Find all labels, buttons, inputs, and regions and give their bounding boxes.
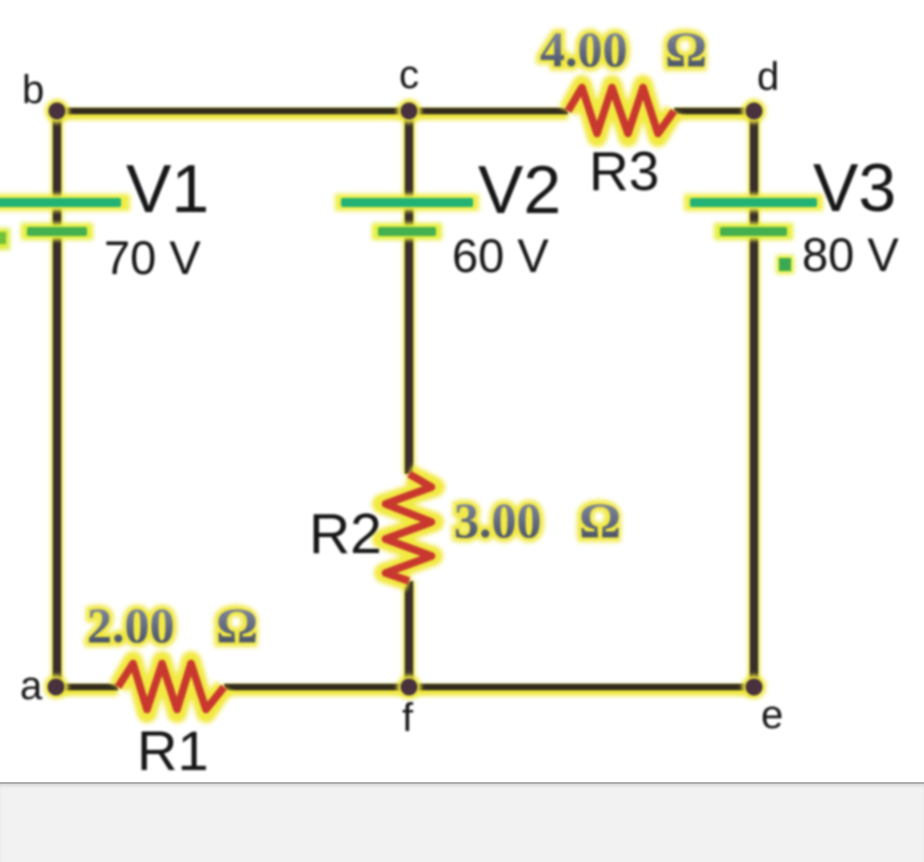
resistor R1 xyxy=(118,661,224,713)
node b (junction dot) xyxy=(45,99,69,123)
svg-text:V3: V3 xyxy=(813,150,896,226)
node d (junction dot) xyxy=(742,99,766,123)
svg-text:80 V: 80 V xyxy=(802,228,899,281)
node a (junction dot) xyxy=(44,675,68,699)
label R2 xyxy=(309,502,382,566)
node label f xyxy=(402,696,414,740)
svg-text:V1: V1 xyxy=(126,151,209,227)
svg-text:2.00: 2.00 xyxy=(87,597,175,653)
resistor R3 xyxy=(568,85,674,137)
svg-text:Ω: Ω xyxy=(579,492,621,548)
svg-text:f: f xyxy=(402,696,414,740)
node c (junction dot) xyxy=(397,99,421,123)
stray yellow mark at left edge below V1 short plate xyxy=(0,228,10,250)
resistor R2 xyxy=(382,474,435,581)
value label 60 V xyxy=(452,229,549,282)
svg-text:d: d xyxy=(757,55,779,99)
node e (junction dot) xyxy=(742,675,766,699)
wire c-R2 (middle vertical upper) xyxy=(403,111,415,474)
svg-text:R2: R2 xyxy=(309,502,382,566)
label V1 xyxy=(126,151,209,227)
battery V3 xyxy=(684,194,823,240)
value label 70 V xyxy=(104,231,201,284)
wire R2-f (middle vertical lower) xyxy=(403,581,415,687)
svg-text:3.00: 3.00 xyxy=(454,492,542,548)
svg-text:V2: V2 xyxy=(478,152,561,228)
node f (junction dot) xyxy=(397,675,421,699)
label R1 xyxy=(137,719,209,782)
svg-text:a: a xyxy=(20,664,43,708)
svg-text:b: b xyxy=(22,68,44,112)
value label 4.00 Ω xyxy=(540,21,707,77)
svg-text:e: e xyxy=(761,693,783,737)
node label a xyxy=(20,664,43,708)
label V2 xyxy=(478,152,561,228)
node label e xyxy=(761,693,783,737)
battery V2 xyxy=(335,194,479,240)
wire b-c (top left horizontal) xyxy=(57,111,568,115)
footer gray strip xyxy=(0,782,924,862)
stray green mark near 80 V xyxy=(776,255,794,274)
wire a-R1 (bottom left horizontal) xyxy=(57,687,118,691)
svg-text:R3: R3 xyxy=(589,140,659,202)
wire R3-d (top right horizontal) xyxy=(674,111,754,115)
label V3 xyxy=(813,150,896,226)
battery V1 xyxy=(0,194,130,240)
svg-text:c: c xyxy=(399,53,419,97)
node label c xyxy=(399,53,419,97)
svg-text:Ω: Ω xyxy=(665,21,707,77)
svg-text:Ω: Ω xyxy=(216,597,258,653)
node label b xyxy=(22,68,44,112)
value label 2.00 Ω xyxy=(87,597,258,653)
svg-text:60 V: 60 V xyxy=(452,229,549,282)
wire R1-f-e (bottom horizontal) xyxy=(224,687,754,691)
value label 80 V xyxy=(802,228,899,281)
svg-text:R1: R1 xyxy=(137,719,209,782)
label R3 xyxy=(589,140,659,202)
value label 3.00 Ω xyxy=(454,492,621,548)
node label d xyxy=(757,55,779,99)
svg-text:70 V: 70 V xyxy=(104,231,201,284)
svg-text:4.00: 4.00 xyxy=(540,21,628,77)
wire d-e (right vertical branch) xyxy=(748,111,760,687)
wire b-a (left vertical branch) xyxy=(51,111,63,687)
